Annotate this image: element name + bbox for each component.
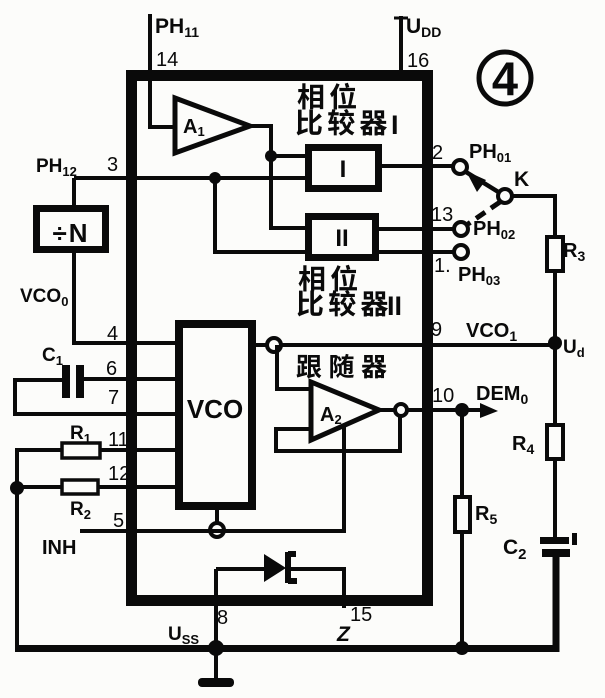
svg-text:12: 12 (108, 463, 130, 485)
svg-text:I: I (340, 156, 347, 183)
wire divider to pin 4 (74, 253, 175, 343)
svg-text:Z: Z (336, 623, 351, 646)
svg-text:VCO0: VCO0 (20, 286, 68, 309)
wire R2 left to rail (17, 485, 62, 489)
svg-text:3: 3 (107, 154, 118, 176)
svg-text:II: II (335, 225, 348, 252)
svg-text:15: 15 (350, 604, 372, 626)
wire pin3 junction to comparator II lower input (215, 178, 305, 252)
node junction at A1 output (265, 150, 277, 162)
node junction pin8 rail (208, 640, 224, 656)
svg-text:14: 14 (156, 49, 178, 71)
svg-text:7: 7 (108, 387, 119, 409)
wire bubble to VCO bottom (215, 506, 219, 523)
wire pin 9 VCO output to Ud (256, 343, 555, 347)
wire pin 2 comparator I output (379, 164, 453, 168)
terminal PH03 (454, 245, 468, 259)
VCO inhibit bubble (210, 523, 224, 537)
svg-text:16: 16 (407, 50, 429, 72)
svg-text:4: 4 (492, 52, 518, 105)
resistor R2 (62, 480, 98, 494)
svg-text:INH: INH (42, 537, 76, 559)
svg-text:11: 11 (108, 429, 129, 451)
label genshuiqi (follower) (297, 354, 387, 378)
wire C2 to bottom rail corner (15, 557, 556, 649)
wire left rail down to bottom (15, 488, 19, 648)
A2 feedback loop (276, 416, 400, 451)
resistor R3 (547, 237, 563, 271)
wire K to R3 (512, 196, 555, 237)
wire pin 12 (98, 485, 179, 489)
figure number badge 4 (479, 52, 531, 105)
svg-text:2: 2 (432, 142, 443, 164)
terminal PH01 (453, 160, 467, 174)
wire A1 output junction down to comparator II (271, 156, 305, 228)
wire C1 left loop to pin 7 (15, 380, 179, 414)
resistor R1 (62, 443, 100, 458)
VCO box (179, 324, 252, 506)
capacitor C2 (540, 533, 577, 557)
svg-text:9: 9 (431, 319, 442, 341)
svg-text:6: 6 (106, 358, 117, 380)
pin 14 wire (PH11 signal input) (150, 14, 175, 127)
divider box ÷N (37, 209, 106, 250)
VCO output bubble (267, 338, 281, 352)
op-amp A2 source follower (311, 382, 379, 440)
switch dashed arm to PH02 (468, 202, 500, 224)
wire pin 11 (100, 448, 179, 452)
node junction R1R2 rail (10, 481, 24, 495)
node junction R5 rail (455, 641, 469, 655)
DEM0 output arrow (462, 403, 498, 418)
svg-text:K: K (514, 168, 529, 191)
node junction DEM (455, 403, 469, 417)
wire R3 to Ud node (553, 271, 557, 343)
wire A2 output to bubble (379, 408, 395, 412)
resistor R4 (547, 425, 563, 459)
zener diode Z pin15 protection (216, 552, 344, 608)
svg-text:5: 5 (113, 510, 124, 532)
wire R5 to bottom rail (460, 532, 464, 648)
svg-text:4: 4 (107, 323, 118, 345)
node junction on pin 3 line (209, 172, 221, 184)
switch K arm with arrow (466, 171, 500, 193)
wire DEM node to R5 (460, 410, 464, 497)
capacitor C1 (62, 365, 84, 398)
wire pin 1 comparator II lower output (376, 250, 454, 254)
wire pin 5 INH (80, 427, 344, 531)
label xiangwei bijiaoqi II (299, 265, 357, 292)
wire pin 13 comparator II output (376, 227, 454, 231)
switch K pivot (498, 189, 512, 203)
wire Ud to R4 (553, 343, 557, 425)
svg-text:I: I (391, 110, 399, 140)
IC package outline (132, 76, 428, 601)
svg-text:13: 13 (431, 204, 453, 226)
wire pin 6 (84, 377, 179, 381)
phase comparator II box (309, 217, 376, 258)
wire A1 output to comparator I (250, 126, 305, 156)
wire VCO out down to A2 input (277, 345, 311, 389)
svg-text:8: 8 (217, 607, 228, 629)
wire PH12 line to divider (72, 178, 76, 205)
wire pin 10 DEM output (407, 408, 462, 412)
terminal PH02 (454, 222, 468, 236)
svg-text:÷N: ÷N (52, 218, 89, 248)
phase comparator I box (309, 148, 379, 189)
wire R1 left to rail (17, 450, 62, 488)
svg-text:VCO: VCO (187, 394, 243, 424)
node Ud (548, 336, 562, 350)
svg-text:II: II (387, 291, 402, 321)
svg-text:10: 10 (432, 385, 454, 407)
svg-text:1.: 1. (434, 255, 451, 277)
ground symbol (198, 648, 234, 687)
wire R4 to C2 (553, 459, 557, 537)
wire pin 3 PH12 input (74, 176, 305, 180)
A2 output bubble (395, 404, 407, 416)
pin 16 wire (UDD supply) (399, 16, 403, 76)
label xiangwei bijiaoqi I (298, 83, 356, 110)
resistor R5 (455, 497, 470, 532)
wire pin 8 USS to rail (214, 569, 218, 648)
op-amp A1 (175, 98, 250, 153)
